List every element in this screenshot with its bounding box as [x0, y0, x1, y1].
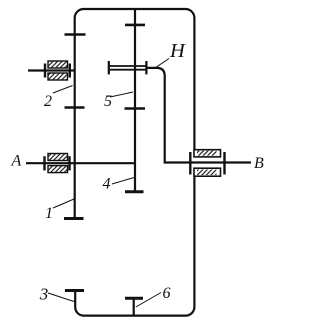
gear 1 end bar	[64, 217, 84, 220]
leader line gear 6	[136, 293, 161, 308]
bearing on shaft 2: left bar	[44, 64, 46, 78]
gear 3 end bar	[65, 289, 84, 292]
housing outline lower: right side lower, bottom edge, gear-3 stem	[75, 176, 194, 315]
bearing on shaft B: left bar	[189, 152, 191, 175]
bearing on shaft A: right bar	[68, 156, 70, 170]
coupling H upper plate	[110, 65, 146, 67]
gear 6 stem	[133, 298, 135, 315]
svg-text:6: 6	[163, 285, 171, 302]
leader line gear 2	[53, 86, 73, 94]
bearing on shaft A: left bar	[43, 156, 45, 170]
svg-text:1: 1	[45, 205, 53, 222]
leader line carrier H	[154, 59, 169, 69]
central shaft line gears 5-4	[134, 9, 136, 192]
gear 6 end bar	[125, 297, 143, 300]
svg-text:4: 4	[103, 176, 111, 193]
gear tick upper left on shaft 1-2	[65, 33, 86, 36]
svg-text:H: H	[169, 40, 186, 62]
upper shaft line gear 2	[28, 69, 75, 71]
bearing on shaft B: lower block	[194, 168, 221, 176]
coupling H left bar	[108, 61, 110, 74]
leader line gear 1	[53, 199, 74, 208]
bearing on shaft B: right bar	[223, 152, 225, 175]
svg-text:B: B	[254, 155, 264, 172]
svg-text:3: 3	[39, 284, 49, 303]
gear 4 end bar	[125, 190, 144, 193]
bearing on shaft B: upper block	[194, 150, 221, 157]
coupling H right bar	[145, 61, 147, 74]
gear 5 tick	[125, 107, 146, 110]
svg-text:5: 5	[104, 93, 112, 110]
bearing on shaft A: upper block	[48, 154, 68, 161]
shaft A line	[26, 162, 135, 164]
gear 2 tick	[65, 106, 85, 109]
housing outline upper: left shaft line 1-2, top edge, right side upper	[75, 9, 195, 219]
bearing on shaft 2: upper block	[48, 61, 68, 68]
svg-text:2: 2	[44, 93, 52, 110]
bearing on shaft 2: lower block	[48, 73, 68, 80]
svg-text:A: A	[11, 153, 22, 170]
leader line gear 5	[110, 92, 133, 97]
coupling H lower plate	[110, 69, 146, 71]
bearing on shaft 2: right bar	[69, 64, 71, 78]
leader line gear 4	[112, 178, 134, 185]
bearing on shaft A: lower block	[48, 166, 68, 173]
carrier H arm and shaft B line	[147, 68, 251, 163]
leader line gear 3	[48, 293, 74, 302]
gear tick upper center on shaft 5-4	[125, 24, 145, 27]
